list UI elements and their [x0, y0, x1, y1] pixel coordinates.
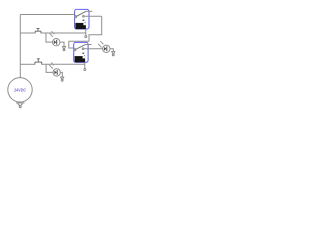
wire lamp LP1 to ground: [60, 42, 64, 46]
relay K2 common terminal: [74, 49, 76, 51]
relay K1 switch blade: [76, 11, 86, 16]
ground G1: [16, 103, 25, 108]
pushbutton S2: [35, 59, 42, 65]
wire top rail to relay K1 common: [20, 14, 75, 16]
wire branch B right of switch to coil pin: [42, 63, 85, 65]
wire branch A right of switch to coil pin: [41, 32, 86, 34]
ground G4: [60, 77, 64, 81]
wire branch A left of switch: [20, 32, 35, 34]
relay K1 coil pin end terminal: [85, 36, 87, 38]
lamp LP1: [53, 39, 60, 46]
wire lamp LP3 feed: [46, 64, 53, 72]
relay K1 selection box: [75, 9, 89, 29]
relay K2 blade stub: [86, 44, 92, 46]
relay K2 coil pin: [84, 62, 86, 68]
light rays into LP1: [49, 31, 54, 37]
relay K2 coil top tick: [83, 55, 85, 56]
light rays into LP2: [98, 41, 104, 48]
wire source to ground: [19, 101, 21, 104]
light rays into LP3: [49, 62, 54, 68]
ground G3: [111, 52, 115, 56]
wire lamp LP2 to ground: [110, 49, 113, 52]
relay K1 common terminal: [75, 16, 77, 18]
relay K1 blade stub: [86, 10, 92, 12]
relay K2 NO contact: [82, 48, 84, 50]
lamp LP2: [103, 45, 110, 52]
relay K2 output wire to lamp LP2: [84, 48, 103, 50]
relay K1 coil: [75, 23, 86, 29]
relay K1 NO contact: [83, 15, 85, 17]
ground G2: [62, 46, 66, 50]
wire lamp LP3 to ground: [60, 72, 62, 76]
wire trunk from source to top rail: [19, 15, 21, 78]
pushbutton S1: [35, 29, 41, 34]
relay K1 coil pin: [85, 29, 87, 35]
wire lamp LP1 feed: [46, 33, 53, 42]
relay K1 output pin wire: [84, 15, 102, 17]
relay K2 selection box: [74, 42, 88, 62]
wire route K1 output to K2 common: [69, 16, 102, 48]
lamp LP3: [53, 69, 60, 76]
relay K2 coil pin end terminal: [84, 69, 86, 71]
relay K2 contact pad: [82, 53, 84, 54]
voltage source B1 24VDC: [8, 78, 32, 102]
relay K2 coil: [75, 56, 86, 62]
svg-text:24VDC: 24VDC: [14, 88, 26, 93]
relay K1 contact pad: [83, 20, 85, 21]
relay K2 switch blade: [75, 44, 85, 49]
relay K1 coil top tick: [84, 22, 86, 23]
wire branch B left of switch: [20, 63, 35, 65]
